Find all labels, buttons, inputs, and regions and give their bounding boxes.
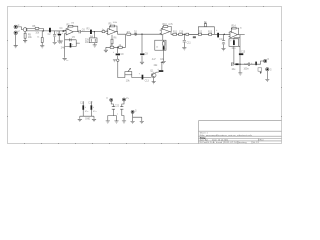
svg-text:47u: 47u [93, 111, 96, 113]
resistor R11 on feedback [163, 26, 167, 28]
svg-text:+: + [139, 74, 141, 76]
ground next to junction circle [113, 60, 116, 62]
wire C14 down to output chain [233, 46, 235, 64]
junction circle at x116.4 [117, 59, 119, 61]
connector pin J3 [131, 110, 134, 113]
resistor R12 on wire [173, 33, 179, 35]
svg-text:O: O [267, 59, 269, 61]
ground left of row [104, 50, 108, 52]
wire down right of box [234, 35, 240, 54]
svg-text:C4: C4 [60, 28, 64, 30]
ground right of J3 [140, 121, 144, 123]
feedback wire U4A [231, 28, 238, 34]
svg-text:10k: 10k [126, 80, 131, 82]
svg-text:+: + [62, 33, 64, 35]
bias wire above [27, 28, 43, 31]
noninverting network below U1A [65, 33, 80, 46]
resistor R1 below MK1 [24, 32, 26, 41]
title block [199, 121, 282, 144]
capacitor C8 chain at x141 [140, 34, 144, 62]
ground group1 left [78, 119, 82, 121]
capacitor C18 dark vertical [255, 62, 257, 66]
svg-text:+: + [216, 30, 218, 32]
svg-text:C5: C5 [72, 37, 76, 39]
op-amp U1A [66, 29, 73, 35]
ground under C20 [221, 49, 225, 51]
capacitor C6 series on wire [79, 30, 87, 33]
svg-text:Id: 1/1: Id: 1/1 [253, 142, 260, 144]
divider network box below [89, 32, 97, 43]
ground under C9 [182, 48, 186, 50]
svg-text:1k: 1k [204, 22, 207, 24]
capacitor group CA1 [82, 101, 84, 116]
sheet border frame [8, 7, 282, 144]
diode D1 on wire [134, 33, 138, 35]
svg-text:R14: R14 [232, 26, 237, 28]
ground under P2 [265, 80, 269, 82]
capacitor C20 bypass at x223.5 [222, 34, 225, 48]
feedback wire U3A [163, 26, 172, 31]
svg-text:File: preamplificateur_micro_e: File: preamplificateur_micro_electret.sc… [200, 134, 254, 137]
svg-text:22u: 22u [232, 48, 237, 50]
connector P2 pin 1 [264, 59, 267, 62]
connector P1 pin 1 [14, 25, 17, 28]
junction at x224.4 [224, 34, 225, 35]
op-amp U2A input stubs [106, 30, 108, 33]
capacitor C10 polarized inside box [163, 46, 165, 50]
feedback wire U2A [109, 26, 117, 32]
svg-text:R3: R3 [87, 28, 91, 30]
svg-text:10k: 10k [35, 33, 40, 35]
wire down to bottom rail [118, 61, 125, 77]
ground under pin2 [14, 46, 18, 48]
svg-text:+: + [93, 107, 95, 109]
capacitor C17 on chain [248, 63, 255, 67]
junction at x185 [184, 34, 185, 35]
capacitor CB1 [108, 101, 115, 120]
svg-text:C9: C9 [121, 54, 125, 56]
wire J3 to grounds [133, 113, 142, 121]
svg-text:x: x [117, 113, 118, 115]
svg-text:C16: C16 [80, 103, 85, 105]
svg-text:R10: R10 [163, 24, 168, 26]
feedback wire U1A [68, 26, 78, 32]
output wire U1A [73, 31, 79, 33]
connector pin J1 [110, 98, 113, 101]
svg-text:10k: 10k [160, 59, 165, 61]
capacitor C13 polarized dark on wire [217, 33, 219, 38]
svg-text:C16: C16 [244, 64, 249, 66]
ground group1 right [92, 119, 96, 121]
svg-text:10k: 10k [28, 37, 33, 39]
op-amp U4A input stubs [229, 33, 231, 36]
svg-text:G: G [270, 69, 272, 71]
junction at x117 row [117, 47, 118, 48]
svg-text:KiCad E.D.A. kicad (2011-07-1: KiCad E.D.A. kicad (2011-07-10)-testing [200, 141, 248, 144]
svg-text:C2: C2 [48, 34, 52, 36]
svg-text:C6: C6 [82, 29, 86, 31]
wire C16 down to chain and ground [239, 55, 241, 73]
capacitor C11 polarized vertical on rail [142, 75, 144, 80]
svg-text:C17: C17 [88, 103, 93, 105]
wire to U1A with junction blob [55, 30, 66, 32]
component value labels [18, 22, 272, 121]
RC network box below U3A [155, 40, 166, 50]
svg-text:+: + [77, 29, 79, 31]
wire pin2 to ground [266, 71, 268, 79]
svg-text:U: U [18, 31, 20, 33]
wire D1 to U3A [138, 33, 162, 35]
inverting network below U2A [111, 35, 113, 47]
junction at x43.2 [43, 30, 44, 31]
ground mid group2 [113, 116, 118, 124]
bottom rail wire y76 [132, 77, 152, 79]
svg-text:V+: V+ [126, 98, 130, 100]
op-amp U1A input stubs [65, 30, 67, 33]
resistor R5 on feedback [69, 25, 73, 27]
wire to output pin 1 [257, 61, 264, 64]
resistor R13 on wire [179, 33, 199, 35]
op-amp U3A input stubs [160, 30, 162, 33]
connector pin J2 [123, 98, 126, 101]
frame tick marks [7, 6, 282, 144]
svg-text:10k: 10k [85, 42, 90, 44]
resistor R9 on row [110, 46, 114, 48]
svg-text:C11: C11 [187, 42, 192, 44]
capacitor C16 dark horizontal below vertical [239, 53, 243, 55]
capacitor C4 on loop top [70, 38, 71, 41]
resistor R19 on feedback [232, 27, 236, 29]
op-amp U3A [161, 29, 170, 35]
svg-text:+: + [85, 107, 87, 109]
wire row y46 [106, 34, 126, 50]
ground under R1 [23, 41, 27, 43]
microphone MK1 [23, 28, 27, 32]
resistor R2 on bias wire [35, 28, 39, 30]
ground under C2 [57, 41, 61, 43]
svg-text:C13: C13 [145, 81, 150, 83]
svg-text:1k: 1k [156, 47, 158, 49]
ground under Q1 [152, 78, 156, 84]
resistor R16 on wire [198, 33, 201, 35]
ground under CB1 [106, 121, 110, 123]
ground under U1A network [63, 58, 67, 60]
ground under divider box [94, 43, 96, 45]
capacitor C15 dark on chain [232, 62, 249, 66]
svg-text:4.7k: 4.7k [168, 24, 173, 26]
ground under RC box [162, 62, 166, 64]
capacitor C12 polarized at Q1 top [155, 62, 164, 73]
bus wire group1 [80, 116, 94, 119]
resistor R8 on wire [127, 33, 134, 35]
svg-text:Q1: Q1 [150, 70, 154, 72]
resistor R3 hanging at x41.4 [41, 31, 43, 45]
svg-text:+: + [113, 52, 115, 54]
output wire U3A [170, 32, 173, 35]
box with capacitor C14 [229, 38, 239, 47]
svg-text:R12: R12 [198, 32, 203, 34]
wire pin1 to MK1 [17, 27, 23, 30]
svg-text:Rev:: Rev: [260, 140, 265, 142]
wire box bottom to ground [163, 50, 165, 61]
title block text [200, 132, 265, 144]
stub U3A to RC box [162, 35, 164, 40]
svg-text:100k: 100k [113, 22, 117, 24]
svg-text:+: + [165, 49, 167, 51]
ground under C1 [53, 42, 57, 44]
ground under CB2 [122, 121, 126, 123]
capacitor C2 polarized shunt at x59.2 [58, 31, 62, 41]
op-amp U4A [230, 31, 238, 38]
svg-text:4u7: 4u7 [152, 59, 157, 61]
svg-text:1k: 1k [37, 37, 39, 39]
svg-text:1k: 1k [240, 27, 242, 29]
wire MK1 to stage A [27, 30, 48, 32]
transistor Q1 [151, 73, 156, 78]
wire down to ground [64, 47, 66, 58]
svg-text:C15: C15 [241, 52, 246, 54]
svg-text:100n: 100n [244, 69, 250, 71]
svg-text:GND: GND [85, 118, 90, 120]
svg-text:C14: C14 [219, 39, 224, 41]
svg-text:C10: C10 [179, 32, 184, 34]
svg-text:47u: 47u [85, 111, 88, 113]
bypass loop above R16 R17 [198, 27, 214, 35]
svg-text:1u: 1u [66, 60, 68, 62]
resistor R17 on wire [209, 33, 212, 35]
svg-text:10u: 10u [232, 69, 237, 71]
svg-text:R11: R11 [173, 32, 178, 34]
resistor R4 dark on wire [48, 28, 55, 33]
junction at x141 [141, 34, 142, 35]
svg-text:G: G [135, 110, 137, 112]
output wire U4A [238, 34, 245, 36]
output wire U2A [116, 32, 126, 35]
capacitor C1 chain at x53.5 [53, 31, 56, 42]
ground under R3 [40, 46, 44, 48]
resistor R14 inside box [163, 40, 165, 45]
capacitor C9 chain at x182 [183, 34, 186, 47]
svg-text:V: V [106, 98, 108, 100]
op-amp U2A [108, 29, 116, 35]
resistor R18 vertical to VCC [204, 23, 206, 27]
resistor R7 on feedback [110, 25, 114, 27]
svg-text:C8: C8 [145, 53, 149, 55]
svg-text:1M: 1M [71, 22, 74, 24]
connector P1 pin 2 [14, 31, 17, 34]
connector P2 pin 2 [266, 68, 269, 71]
wire pin2 down [15, 34, 17, 45]
svg-text:R6: R6 [114, 37, 118, 39]
resistor R20 on wire [186, 33, 189, 35]
ground under J3 [131, 121, 135, 123]
resistor R6 dark on wire [87, 30, 95, 34]
junction at x94.4 [94, 31, 95, 32]
svg-text:+: + [251, 63, 253, 65]
ground under chain junction [238, 73, 242, 75]
dark value label under wire [193, 36, 196, 38]
ground under C8 [140, 62, 144, 64]
stage D wire with resistors [189, 33, 230, 35]
capacitor group CA2 [91, 101, 93, 116]
potentiometer RV1 [125, 68, 132, 77]
resistor R10 on row [119, 46, 123, 48]
svg-text:22k: 22k [154, 65, 159, 67]
capacitor C7 polarized horizontal [116, 47, 120, 59]
capacitor CB2 [120, 101, 124, 120]
svg-text:R13: R13 [208, 32, 213, 34]
ground left of U1A [59, 41, 63, 43]
capacitor C5 polarized vertical [70, 43, 72, 47]
capacitor C19 on wire [102, 31, 105, 33]
wire to U2A [94, 31, 107, 33]
svg-text:D1: D1 [134, 32, 138, 34]
svg-text:C22: C22 [115, 105, 120, 107]
